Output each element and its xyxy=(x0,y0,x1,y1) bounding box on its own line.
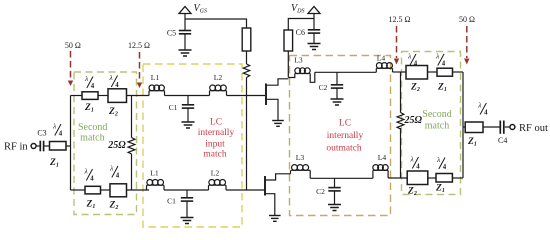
svg-text:4: 4 xyxy=(90,176,94,183)
transmission line Z1 top-left xyxy=(82,92,98,100)
svg-text:LC: LC xyxy=(210,118,222,128)
label lambda/4 input xyxy=(52,122,63,138)
ground C1 bottom xyxy=(181,218,194,224)
svg-text:L2: L2 xyxy=(214,73,223,82)
transmission line Z1 bottom-right xyxy=(436,174,452,183)
svg-text:Z1: Z1 xyxy=(437,83,447,94)
svg-text:Z2: Z2 xyxy=(109,201,119,212)
svg-text:L4: L4 xyxy=(378,153,387,162)
svg-text:Second: Second xyxy=(78,122,107,133)
second match box left xyxy=(74,72,137,215)
wire VGS feed horizontal xyxy=(185,19,247,28)
transmission line Z2 bottom-left xyxy=(110,184,127,197)
svg-text:λ: λ xyxy=(109,164,114,173)
svg-text:L1: L1 xyxy=(151,73,160,82)
svg-text:L3: L3 xyxy=(296,153,305,162)
svg-text:L2: L2 xyxy=(211,169,220,178)
svg-text:25Ω: 25Ω xyxy=(107,140,126,151)
wire top-left branch a xyxy=(71,95,83,97)
inductor L3 top xyxy=(288,68,315,83)
wire output tap xyxy=(463,126,465,128)
svg-text:L3: L3 xyxy=(294,56,303,65)
RF in terminal xyxy=(31,144,36,149)
label lambda/4 output xyxy=(477,101,488,117)
wire VGS stem xyxy=(184,14,186,31)
inductor L4 bottom xyxy=(373,165,388,179)
wire resistor to gate bus xyxy=(246,78,248,96)
svg-text:Z1: Z1 xyxy=(86,200,96,211)
transistor Q1 xyxy=(266,79,288,121)
svg-text:λ: λ xyxy=(435,52,440,61)
svg-text:4: 4 xyxy=(59,131,63,138)
wire L4 to Z2 right xyxy=(393,71,407,73)
ground C6 xyxy=(308,44,321,50)
wire L4 to Z2 bottom right xyxy=(388,177,407,179)
ground C2 bottom xyxy=(328,205,341,211)
inductor L3 bottom xyxy=(291,165,311,179)
svg-text:λ: λ xyxy=(407,52,412,61)
svg-text:match: match xyxy=(80,133,104,144)
transmission line Z2 top-right xyxy=(406,66,428,80)
capacitor C6 xyxy=(308,30,320,44)
svg-text:C1: C1 xyxy=(167,197,176,206)
svg-text:Z1: Z1 xyxy=(49,158,59,169)
svg-text:λ: λ xyxy=(84,167,89,176)
svg-text:C2: C2 xyxy=(316,187,325,196)
svg-text:4: 4 xyxy=(442,61,446,68)
arrow 50 ohm right xyxy=(464,59,469,65)
LC input match box xyxy=(143,64,242,227)
svg-text:outmatch: outmatch xyxy=(326,144,362,154)
wire Z1 output to C4 xyxy=(483,126,500,128)
resistor 25 ohm right xyxy=(397,113,404,129)
wire bottom-left branch c xyxy=(127,189,150,191)
transmission line Z2 bottom-right xyxy=(407,171,428,185)
wire C3 to Z1 input xyxy=(44,145,49,147)
wire top-left branch c xyxy=(127,95,150,97)
50 ohm reference line right xyxy=(466,26,468,58)
wire L1 to C1 top xyxy=(165,95,210,97)
node vertical left junction xyxy=(70,96,72,191)
svg-text:4: 4 xyxy=(443,164,447,171)
arrow 12.5 ohm right xyxy=(394,59,399,65)
transmission line Z1 input xyxy=(50,142,67,151)
capacitor C1 top xyxy=(182,96,194,123)
12.5 ohm reference line left xyxy=(139,52,141,82)
label lambda/4 top-left Z1 xyxy=(84,74,95,90)
inductor L4 top xyxy=(376,63,392,73)
bias line element gate xyxy=(242,28,251,51)
wire L3 to L4 bottom xyxy=(310,177,373,179)
wire Z1 top-right to vertical xyxy=(453,71,464,73)
svg-text:25Ω: 25Ω xyxy=(404,115,423,126)
arrow 50 ohm left xyxy=(68,81,73,87)
resistor gate bias xyxy=(243,64,249,78)
svg-text:λ: λ xyxy=(109,73,114,82)
VDS supply symbol xyxy=(308,7,320,14)
bias line element drain xyxy=(284,30,293,51)
svg-text:RF in: RF in xyxy=(4,142,28,153)
svg-text:λ: λ xyxy=(410,155,415,164)
label lambda/4 bottom-left Z2 xyxy=(109,164,120,180)
inductor L2 top xyxy=(210,85,227,96)
transmission line Z1 output xyxy=(465,122,483,133)
ground Q2 source xyxy=(269,216,281,222)
vertical link with 25 ohm left xyxy=(131,96,133,138)
wire L2 to gate Q1 xyxy=(227,95,266,97)
ground C1 top xyxy=(182,122,195,128)
label lambda/4 bottom-right Z2 xyxy=(410,155,421,171)
svg-text:Z1: Z1 xyxy=(467,137,477,148)
wire bottom-right branch xyxy=(428,177,436,179)
capacitor C1 bottom xyxy=(181,190,193,218)
wire C4 to terminal xyxy=(505,126,510,128)
svg-text:C1: C1 xyxy=(169,103,178,112)
svg-text:match: match xyxy=(425,121,449,132)
svg-text:λ: λ xyxy=(477,101,482,110)
svg-text:C6: C6 xyxy=(296,28,305,37)
label lambda/4 bottom-right Z1 xyxy=(436,155,447,171)
transmission line Z1 top-right xyxy=(437,68,453,76)
ground Q1 source xyxy=(272,121,284,127)
svg-text:4: 4 xyxy=(416,164,420,171)
label lambda/4 bottom-left Z1 xyxy=(84,167,95,183)
svg-text:50 Ω: 50 Ω xyxy=(459,15,475,24)
wire bottom-left branch a xyxy=(71,189,86,191)
LC outmatch box xyxy=(290,56,391,216)
transmission line Z2 top-left xyxy=(108,89,127,103)
RF out terminal xyxy=(510,125,515,130)
second match box right xyxy=(402,52,461,195)
wire L1 to C1 bottom xyxy=(164,189,209,191)
svg-text:12.5 Ω: 12.5 Ω xyxy=(128,41,150,50)
wire rect to resistor gate xyxy=(246,51,248,64)
wire top-right branch xyxy=(428,71,438,73)
50 ohm reference line left xyxy=(70,51,72,80)
svg-text:match: match xyxy=(203,150,226,160)
svg-text:C2: C2 xyxy=(319,83,328,92)
capacitor C3 xyxy=(40,141,43,152)
right junction vertical xyxy=(462,72,464,178)
svg-text:Second: Second xyxy=(422,109,451,120)
inductor L1 top xyxy=(149,85,165,96)
transmission line Z1 bottom-left xyxy=(85,186,101,194)
vertical link with 25 ohm right xyxy=(400,72,402,113)
wire terminal to C3 xyxy=(36,145,40,147)
label lambda/4 top-right Z2 xyxy=(407,52,418,68)
svg-text:RF out: RF out xyxy=(519,123,548,134)
wire Z1 bottom-right to vertical xyxy=(452,177,463,179)
wire VDS stem xyxy=(313,14,315,30)
svg-text:4: 4 xyxy=(115,82,119,89)
inductor L1 bottom xyxy=(147,180,165,191)
svg-text:input: input xyxy=(205,140,225,150)
wire Z1 input to node xyxy=(66,145,71,147)
wire L3 to L4 top xyxy=(315,71,377,73)
svg-text:4: 4 xyxy=(116,173,120,180)
wire top-left branch b xyxy=(98,95,108,97)
wire L2 to gate Q2 xyxy=(226,189,265,191)
inductor L2 bottom xyxy=(209,180,227,191)
capacitor C5 xyxy=(179,31,191,51)
svg-text:λ: λ xyxy=(436,155,441,164)
capacitor C4 xyxy=(500,121,504,134)
svg-text:VGS: VGS xyxy=(194,3,207,15)
svg-text:C3: C3 xyxy=(37,129,46,138)
gate bus vertical xyxy=(246,96,248,191)
ground C5 xyxy=(179,50,192,56)
wire bottom-left branch b xyxy=(101,189,111,191)
svg-text:C5: C5 xyxy=(167,29,176,38)
wire below resistor left xyxy=(131,154,133,190)
svg-text:VDS: VDS xyxy=(291,3,304,15)
wire below resistor right xyxy=(400,128,402,178)
svg-text:C4: C4 xyxy=(498,136,507,145)
transistor Q2 xyxy=(265,174,291,216)
svg-text:Z2: Z2 xyxy=(407,187,417,198)
arrow 12.5 ohm left xyxy=(137,83,142,89)
label lambda/4 top-right Z1 xyxy=(435,52,446,68)
wire VDS feed horizontal xyxy=(288,19,314,31)
VGS supply symbol xyxy=(179,7,191,14)
wire rect to drain node xyxy=(287,51,289,78)
svg-text:Z2: Z2 xyxy=(410,83,420,94)
ground C2 top xyxy=(331,99,344,105)
label lambda/4 top-left Z2 xyxy=(109,73,120,89)
svg-text:λ: λ xyxy=(52,122,57,131)
svg-text:Z1: Z1 xyxy=(84,103,94,114)
svg-text:λ: λ xyxy=(84,74,89,83)
capacitor C2 bottom xyxy=(328,178,340,204)
svg-text:4: 4 xyxy=(414,61,418,68)
svg-text:Z2: Z2 xyxy=(108,107,118,118)
svg-text:Z1: Z1 xyxy=(435,184,445,195)
12.5 ohm reference line right xyxy=(396,26,398,58)
svg-text:L1: L1 xyxy=(150,169,159,178)
capacitor C2 top xyxy=(331,72,343,99)
svg-text:L4: L4 xyxy=(377,54,386,63)
svg-text:internally: internally xyxy=(327,131,364,141)
svg-text:4: 4 xyxy=(484,110,488,117)
resistor 25 ohm left xyxy=(128,138,135,154)
svg-text:12.5 Ω: 12.5 Ω xyxy=(389,15,411,24)
svg-text:LC: LC xyxy=(339,119,351,129)
svg-text:4: 4 xyxy=(91,83,95,90)
svg-text:internally: internally xyxy=(198,128,235,138)
svg-text:50 Ω: 50 Ω xyxy=(65,41,81,50)
